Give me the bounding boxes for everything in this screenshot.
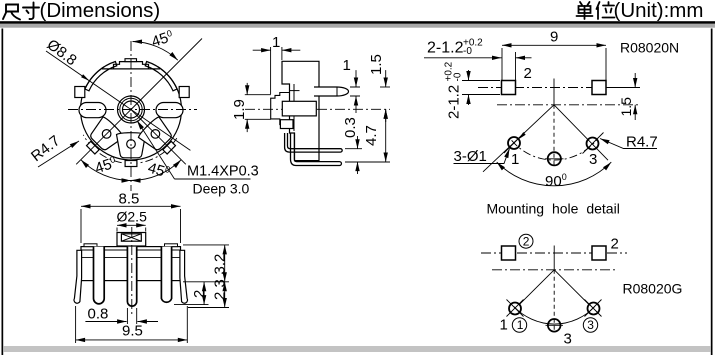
svg-text:-0: -0 bbox=[453, 72, 464, 81]
right radial bbox=[554, 270, 589, 305]
hole 1 circle bbox=[508, 137, 520, 149]
pitch dash-dot arc R4.7 bbox=[83, 135, 177, 164]
circled 2 bbox=[519, 234, 533, 248]
svg-text:M1.4XP0.3: M1.4XP0.3 bbox=[187, 164, 259, 180]
hole 3 circle bbox=[587, 138, 599, 150]
svg-text:3-Ø1: 3-Ø1 bbox=[454, 148, 487, 165]
hole 2 circle bbox=[548, 152, 561, 165]
dim 0.8 arrows bbox=[85, 321, 126, 323]
svg-text:0.3: 0.3 bbox=[342, 117, 359, 138]
G detail bbox=[481, 234, 682, 347]
bottom view bbox=[74, 191, 229, 344]
N detail bbox=[424, 29, 679, 217]
left square pad bbox=[502, 246, 516, 260]
dim 9 ext bbox=[502, 48, 606, 80]
diagonal NE line bbox=[131, 39, 202, 110]
dim 1.5 ext bbox=[380, 86, 390, 88]
left side square tab bbox=[75, 87, 85, 98]
horizontal centerline bbox=[245, 108, 390, 110]
body step line bbox=[81, 257, 181, 259]
right stadium slot bbox=[156, 103, 183, 118]
dash-dot line through center bbox=[497, 104, 640, 106]
dim O2.5 line bbox=[117, 224, 146, 226]
left square pad bbox=[502, 81, 516, 95]
hole 3 circle bbox=[588, 303, 600, 315]
dash-dot line through squares bbox=[478, 87, 634, 89]
dim 2 line bbox=[203, 282, 205, 305]
svg-text:1.9: 1.9 bbox=[231, 99, 248, 120]
top-left step bbox=[290, 90, 300, 92]
svg-text:1: 1 bbox=[272, 34, 280, 51]
dim O2.5 ext bbox=[117, 228, 146, 232]
title CJK 尺 bbox=[3, 5, 20, 20]
flange thick arc right bbox=[145, 62, 177, 91]
diameter line O8.8 bbox=[46, 51, 190, 150]
top tab right bbox=[165, 244, 178, 247]
svg-text:R4.7: R4.7 bbox=[28, 132, 63, 165]
shaft outer circle bbox=[118, 96, 145, 123]
svg-text:Ø8.8: Ø8.8 bbox=[44, 36, 80, 69]
dim 8.5 ext bbox=[81, 209, 181, 243]
center vertical line bbox=[553, 79, 555, 105]
right side square tab bbox=[179, 87, 189, 98]
dim 3.2 line bbox=[224, 245, 226, 282]
center axis dash-dot bbox=[131, 227, 133, 316]
shaft thread circle bbox=[123, 101, 140, 118]
dim 2 ext bbox=[174, 304, 209, 306]
svg-text:-0: -0 bbox=[463, 46, 472, 57]
svg-text:1: 1 bbox=[517, 318, 524, 332]
shaft bbox=[314, 87, 349, 96]
svg-text:Ø2.5: Ø2.5 bbox=[117, 209, 148, 225]
circled 3 bbox=[583, 318, 597, 332]
cap top tab bbox=[125, 59, 137, 62]
svg-text:9.5: 9.5 bbox=[122, 323, 143, 340]
svg-text:R08020N: R08020N bbox=[620, 40, 679, 56]
dim 3.2 ext top bbox=[183, 244, 229, 246]
body outline bbox=[282, 61, 319, 160]
svg-text:0.8: 0.8 bbox=[88, 306, 109, 323]
hole 1 circle bbox=[509, 303, 521, 315]
hole 3 X stroke bbox=[583, 133, 604, 154]
right square pad bbox=[592, 81, 606, 95]
svg-text:1: 1 bbox=[343, 57, 351, 74]
pitch dash-dot arc bbox=[512, 140, 597, 160]
svg-text:2: 2 bbox=[524, 65, 532, 82]
hole 1 X stroke bbox=[504, 133, 525, 154]
bracket stepped plate bbox=[271, 93, 290, 125]
svg-text:R4.7: R4.7 bbox=[626, 134, 658, 151]
hole 2 tick bbox=[546, 324, 564, 326]
left radial bbox=[519, 270, 554, 305]
leg A bbox=[285, 133, 343, 152]
dim 9.5 line bbox=[76, 339, 188, 341]
dim 9 line bbox=[502, 44, 606, 46]
divider gray line bbox=[0, 24, 715, 28]
M1.4 leader bbox=[137, 121, 175, 180]
border right bbox=[711, 29, 713, 355]
dash-dot line through center bbox=[492, 269, 616, 271]
dim 1 top ext lines bbox=[271, 47, 282, 94]
svg-text:3: 3 bbox=[589, 151, 597, 168]
svg-text:(Dimensions): (Dimensions) bbox=[40, 0, 161, 22]
dim 1.9 line arrows bbox=[246, 83, 248, 95]
cap plateau bbox=[114, 62, 149, 69]
svg-text:2-1.2: 2-1.2 bbox=[446, 85, 463, 119]
svg-text:Mounting hole detail: Mounting hole detail bbox=[487, 201, 620, 217]
hole 2 ticks bbox=[545, 158, 564, 160]
leg B bbox=[291, 133, 342, 166]
dim 1.5 line bbox=[385, 70, 387, 87]
prong center bbox=[127, 247, 136, 307]
R4.7 leader bbox=[600, 139, 657, 149]
pad width dim arrows bbox=[424, 57, 502, 59]
pad height dim arrows bbox=[468, 70, 470, 81]
center vertical dashed bbox=[553, 270, 555, 332]
center vertical dashed below bbox=[553, 105, 555, 167]
front view bbox=[28, 28, 259, 197]
clip right bbox=[180, 250, 188, 303]
svg-text:3: 3 bbox=[564, 331, 572, 348]
hole 1 X bbox=[507, 300, 524, 317]
dim 2.3 ext bbox=[188, 307, 229, 309]
vertical centerline bbox=[130, 41, 132, 191]
dim 1 right arrows bbox=[355, 70, 357, 87]
footer gray bar bbox=[3, 346, 711, 352]
top tab left bbox=[84, 244, 97, 247]
dim 0.3 ext bbox=[345, 148, 362, 150]
shaft cap line bbox=[336, 87, 338, 96]
R4.7 leader bbox=[38, 141, 79, 167]
dim 4.7 line bbox=[385, 109, 387, 162]
pad width inner ext bbox=[515, 52, 517, 80]
body outline bbox=[81, 247, 181, 281]
dim 0.8 ext bbox=[127, 308, 136, 324]
arc through holes bbox=[514, 307, 595, 325]
svg-text:8.5: 8.5 bbox=[119, 191, 140, 208]
svg-text:2: 2 bbox=[611, 236, 619, 253]
svg-text:1: 1 bbox=[511, 151, 519, 168]
shaft housing rect bbox=[117, 233, 146, 247]
circled 1 bbox=[512, 318, 526, 332]
dim 2.3 line bbox=[224, 282, 226, 308]
dim arc 45 top bbox=[133, 42, 178, 61]
right 45 radial bbox=[554, 105, 608, 160]
dim 2/2.3 ext mid bbox=[183, 281, 229, 283]
shaft inner rect with X bbox=[121, 234, 141, 241]
lug SE bbox=[137, 116, 181, 160]
svg-text:2: 2 bbox=[523, 235, 530, 249]
svg-text:1: 1 bbox=[500, 317, 508, 334]
dim 1 right ext bbox=[350, 87, 360, 96]
SE radial bbox=[131, 110, 186, 165]
unit CJK 单 bbox=[577, 2, 593, 19]
radius arrow at hole1 bbox=[518, 132, 526, 140]
dim arc 45 bottom-left bbox=[81, 160, 131, 181]
lug SW bbox=[80, 116, 124, 160]
svg-text:2-1.2: 2-1.2 bbox=[427, 40, 464, 57]
svg-text:3.2: 3.2 bbox=[212, 254, 229, 275]
small block below bracket bbox=[280, 120, 293, 129]
border left bbox=[2, 29, 4, 355]
center vertical solid segment bbox=[553, 246, 555, 270]
svg-text:1.5: 1.5 bbox=[368, 54, 385, 75]
right square pad bbox=[592, 246, 606, 260]
prong left bbox=[94, 247, 105, 304]
text 2-1.2 tol vertical bbox=[444, 61, 464, 119]
svg-text:1.5: 1.5 bbox=[618, 97, 634, 117]
dim 9.5 ext bbox=[76, 306, 188, 343]
SW radial bbox=[76, 110, 131, 165]
clip left bbox=[74, 250, 82, 303]
3-O1 leader bbox=[454, 149, 510, 164]
svg-text:4.7: 4.7 bbox=[363, 125, 380, 146]
horizontal centerline bbox=[68, 109, 197, 111]
left stadium slot bbox=[79, 103, 106, 118]
left 45 radial bbox=[483, 105, 554, 172]
svg-text:Deep 3.0: Deep 3.0 bbox=[193, 181, 250, 197]
hole 3 X bbox=[585, 300, 602, 317]
svg-text:9: 9 bbox=[550, 29, 558, 46]
svg-text:2.3: 2.3 bbox=[212, 279, 229, 300]
inner body line bbox=[293, 84, 295, 131]
flange thick arc left bbox=[85, 62, 117, 91]
dim 1.9 ext lines bbox=[245, 95, 271, 120]
flat cap line bbox=[102, 68, 160, 70]
dash-dot line through squares bbox=[481, 252, 627, 254]
dim 4.7 ext bbox=[345, 161, 390, 163]
hole 2 circle bbox=[548, 319, 561, 332]
bushing rect bbox=[282, 101, 316, 116]
dim 1 top arrows bbox=[253, 49, 271, 51]
dim 1.5 ext bbox=[608, 87, 640, 89]
M1.4 underline bbox=[175, 178, 251, 180]
svg-text:450: 450 bbox=[149, 28, 175, 51]
prong right bbox=[161, 247, 171, 303]
shaft middle circle bbox=[120, 98, 142, 120]
top erase for flat cap bbox=[105, 45, 158, 69]
title CJK 寸 bbox=[23, 3, 39, 20]
svg-text:R08020G: R08020G bbox=[623, 281, 683, 297]
side view bbox=[231, 34, 390, 174]
dim 8.5 line bbox=[81, 205, 181, 207]
lug S bbox=[117, 133, 146, 167]
dim 1.5 arrows bbox=[634, 73, 636, 88]
body outer circle bbox=[81, 59, 182, 160]
svg-text:(Unit):mm: (Unit):mm bbox=[614, 0, 704, 22]
svg-text:2: 2 bbox=[191, 290, 208, 298]
pad height ext lines bbox=[462, 81, 500, 95]
unit CJK 位 bbox=[597, 2, 615, 19]
dim arc 45 bottom-right bbox=[131, 160, 181, 181]
svg-text:3: 3 bbox=[587, 318, 594, 332]
body top inner line bbox=[81, 249, 181, 251]
90 deg arc bbox=[497, 162, 612, 186]
arrowhead on diameter at circle edge bbox=[81, 74, 89, 81]
dim 0.3 arrows bbox=[357, 136, 359, 149]
divider black line bbox=[0, 21, 715, 24]
svg-text:900: 900 bbox=[545, 172, 567, 190]
